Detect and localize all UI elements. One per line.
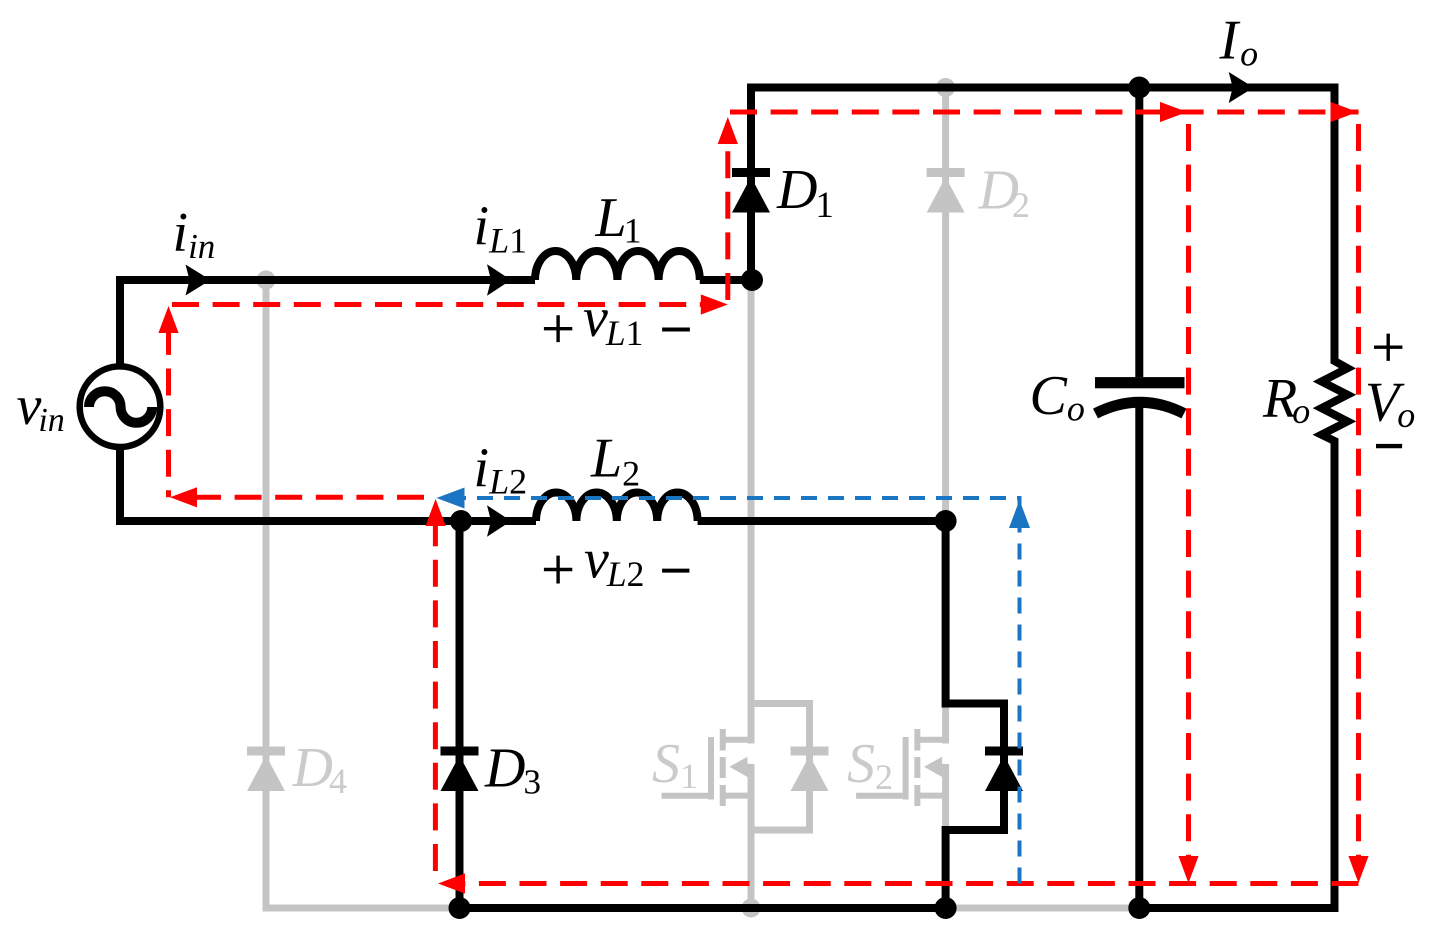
svg-text:L2: L2 — [590, 428, 640, 494]
svg-text:S1: S1 — [652, 733, 698, 796]
svg-text:vin: vin — [17, 375, 65, 439]
svg-text:Vo: Vo — [1365, 372, 1415, 435]
svg-text:D1: D1 — [776, 159, 834, 225]
svg-text:Co: Co — [1030, 365, 1085, 429]
svg-text:Io: Io — [1219, 9, 1259, 73]
svg-text:L1: L1 — [595, 187, 642, 251]
svg-text:iL2: iL2 — [474, 438, 528, 502]
svg-text:Ro: Ro — [1262, 367, 1310, 431]
svg-text:D3: D3 — [484, 737, 541, 801]
svg-text:vL1: vL1 — [583, 287, 643, 353]
svg-text:D4: D4 — [292, 737, 347, 801]
svg-text:iin: iin — [173, 202, 216, 266]
svg-text:S2: S2 — [847, 733, 893, 797]
svg-text:iL1: iL1 — [474, 196, 528, 261]
svg-text:D2: D2 — [978, 159, 1030, 224]
svg-text:vL2: vL2 — [584, 528, 644, 594]
